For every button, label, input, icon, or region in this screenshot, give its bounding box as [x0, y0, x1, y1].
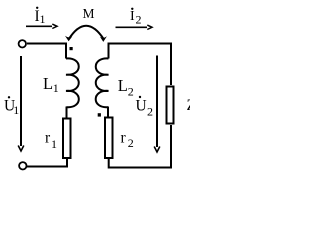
svg-text:2: 2 [136, 13, 142, 27]
svg-text:U: U [136, 97, 147, 114]
svg-text:Z: Z [187, 97, 191, 114]
svg-text:L: L [43, 74, 53, 93]
svg-text:I: I [130, 9, 135, 24]
svg-text:1: 1 [53, 81, 59, 95]
svg-text:L: L [118, 76, 128, 95]
svg-text:1: 1 [13, 103, 19, 117]
svg-text:2: 2 [147, 105, 153, 119]
svg-text:1: 1 [40, 12, 46, 26]
svg-text:2: 2 [128, 85, 134, 99]
svg-text:M: M [83, 6, 95, 21]
svg-text:1: 1 [51, 137, 57, 151]
svg-text:r: r [121, 130, 127, 147]
svg-text:2: 2 [128, 136, 134, 150]
